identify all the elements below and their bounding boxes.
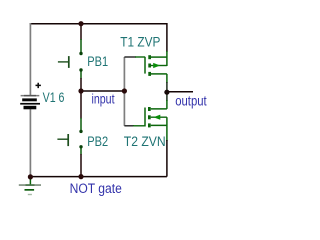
wire left rail upper (battery top lead): [29, 23, 31, 96]
wire bottom rail: [30, 176, 167, 178]
PB2 top terminal: [79, 130, 82, 133]
battery plate 3 (long thin): [20, 103, 40, 105]
wire input vertical (gate bus): [123, 57, 125, 126]
battery plate 1 (long thin): [21, 95, 40, 97]
wire left rail lower (battery bottom lead): [29, 109, 31, 176]
svg-text:NOT gate: NOT gate: [70, 180, 122, 196]
svg-text:PB1: PB1: [87, 54, 108, 70]
node: output junction: [164, 90, 169, 95]
wire right vertical top (rail to T1 source): [166, 23, 168, 52]
svg-text:V1 6: V1 6: [43, 90, 65, 106]
battery plate 2 (short thick): [22, 98, 37, 101]
T1 channel tick bottom: [148, 72, 151, 76]
push button PB2: [57, 130, 82, 149]
PB2 bottom terminal: [79, 145, 82, 148]
T1 channel tick top: [148, 55, 151, 59]
T2 drain stub: [151, 108, 167, 110]
node: ground junction: [28, 174, 33, 179]
svg-text:PB2: PB2: [87, 134, 108, 150]
T1 channel tick middle: [148, 64, 151, 68]
T2 channel tick top: [148, 107, 151, 111]
svg-text:T2 ZVN: T2 ZVN: [124, 133, 166, 149]
wire output: [167, 91, 193, 93]
node: bottom rail / PB2 junction: [78, 174, 83, 179]
PB1 bottom terminal: [79, 68, 82, 71]
wire PB2 bottom to bottom rail: [80, 148, 82, 155]
wire PB1 bottom to input node: [80, 70, 82, 79]
battery V1: [20, 83, 41, 110]
T1 drain stub: [151, 73, 167, 75]
T2 channel tick bottom: [148, 123, 151, 127]
T1 gate bar: [144, 57, 146, 74]
T2 channel tick middle: [148, 115, 151, 119]
PB1 actuator bar: [68, 56, 70, 68]
node: input left junction: [78, 88, 83, 93]
wire top rail: [30, 23, 167, 25]
ground bar 1: [19, 184, 41, 186]
wire input node down to PB2: [80, 91, 82, 119]
T2 source stub: [151, 124, 167, 126]
wire T1 gate lead: [124, 56, 136, 58]
wire output node to T2 drain: [166, 92, 168, 101]
PB1 actuator stem: [58, 61, 69, 63]
T2 gate bar: [144, 108, 146, 127]
T2 body stub with arrow (points left): [151, 116, 167, 118]
transistor T2 (ZVN n-channel MOSFET): [145, 107, 167, 127]
wire T2 gate lead: [124, 125, 134, 127]
ground bar 2: [25, 189, 35, 191]
transistor T1 (ZVP p-channel MOSFET): [145, 55, 167, 76]
T1 body arrow (points right): [153, 65, 160, 67]
node: input right junction (gate bus): [122, 88, 127, 93]
PB2 actuator stem: [57, 138, 68, 140]
battery plus sign: [36, 83, 41, 88]
ground: [19, 177, 41, 195]
ground stem: [29, 177, 31, 185]
node: top rail / PB1 junction: [78, 21, 83, 26]
wire T1 drain to output node: [166, 74, 168, 83]
svg-text:T1 ZVP: T1 ZVP: [120, 34, 160, 50]
wire PB column upper: [80, 24, 82, 40]
T1 source stub: [151, 56, 167, 58]
push button PB1: [58, 52, 83, 72]
wire T2 source down to bottom rail: [166, 117, 168, 141]
wire input horizontal: [81, 90, 124, 92]
battery plate 4 (short thick): [24, 106, 37, 110]
svg-text:output: output: [175, 92, 207, 108]
T1 body stub with arrow: [151, 65, 167, 67]
PB2 actuator bar: [67, 134, 69, 146]
svg-text:input: input: [92, 91, 116, 107]
PB1 top terminal: [79, 52, 82, 55]
ground bar 3: [28, 194, 32, 195]
